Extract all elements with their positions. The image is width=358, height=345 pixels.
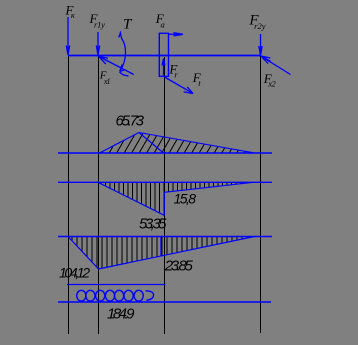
station line 3 (x=164)	[164, 57, 166, 334]
svg-text:53,35: 53,35	[139, 216, 167, 233]
svg-text:15,8: 15,8	[174, 191, 197, 207]
force Fr arrow (up inside gear)	[162, 59, 165, 76]
diagram 3 hatching	[68, 237, 255, 270]
torque hatch circle 1	[77, 290, 86, 301]
shaft axis line	[68, 55, 261, 57]
force Fa arrow	[169, 33, 184, 36]
svg-text:104,12: 104,12	[59, 265, 90, 281]
force Fk arrow	[66, 17, 69, 55]
torque hatch circle 3	[96, 290, 105, 301]
torque diagram baseline	[58, 301, 271, 303]
torque hatch circle 6	[124, 290, 133, 301]
diagram 2 descending line	[98, 182, 164, 215]
torque hatch circle 2	[86, 290, 95, 301]
station line 4 (x=261)	[260, 56, 262, 333]
diagram 2 rising line	[164, 182, 253, 192]
svg-text:23.85: 23.85	[164, 258, 194, 275]
force Fx1 arrow	[99, 56, 134, 74]
diagram 3 baseline	[58, 236, 272, 238]
diagram 2 baseline	[58, 181, 272, 183]
torque diagram top line	[67, 284, 166, 286]
diagram 3 descending line	[68, 237, 99, 270]
torque hatch end curl	[146, 291, 154, 301]
torque hatch circle 7	[134, 290, 143, 301]
station line 1 (x=68)	[68, 56, 70, 334]
force Ft arrow	[165, 77, 194, 94]
force Fr2y arrow	[259, 34, 262, 56]
force Fx2 arrow	[261, 56, 291, 75]
torque hatch circle 5	[115, 290, 124, 301]
diagram 2 hatching	[98, 182, 254, 215]
diagram 2 step at gear	[163, 192, 165, 215]
diagram 1 shallow descent line	[139, 133, 253, 153]
diagram 1 steep descent line	[139, 133, 164, 154]
diagram 1 envelope rising line	[100, 133, 140, 154]
diagram 3 rising line	[99, 237, 255, 270]
gear rectangle	[159, 33, 168, 76]
torque hatch circle 4	[105, 290, 114, 301]
diagram 3 ordinate at gear	[160, 237, 162, 256]
station line 2 (x=98)	[98, 56, 100, 334]
diagram 1 hatching	[100, 133, 254, 154]
svg-text:65.73: 65.73	[116, 112, 145, 129]
force Fr1y arrow	[96, 32, 99, 55]
svg-text:184.9: 184.9	[107, 306, 135, 323]
svg-text:Fк: Fк	[65, 2, 75, 20]
diagram 1 baseline	[58, 152, 272, 154]
torque T arc	[119, 33, 129, 76]
